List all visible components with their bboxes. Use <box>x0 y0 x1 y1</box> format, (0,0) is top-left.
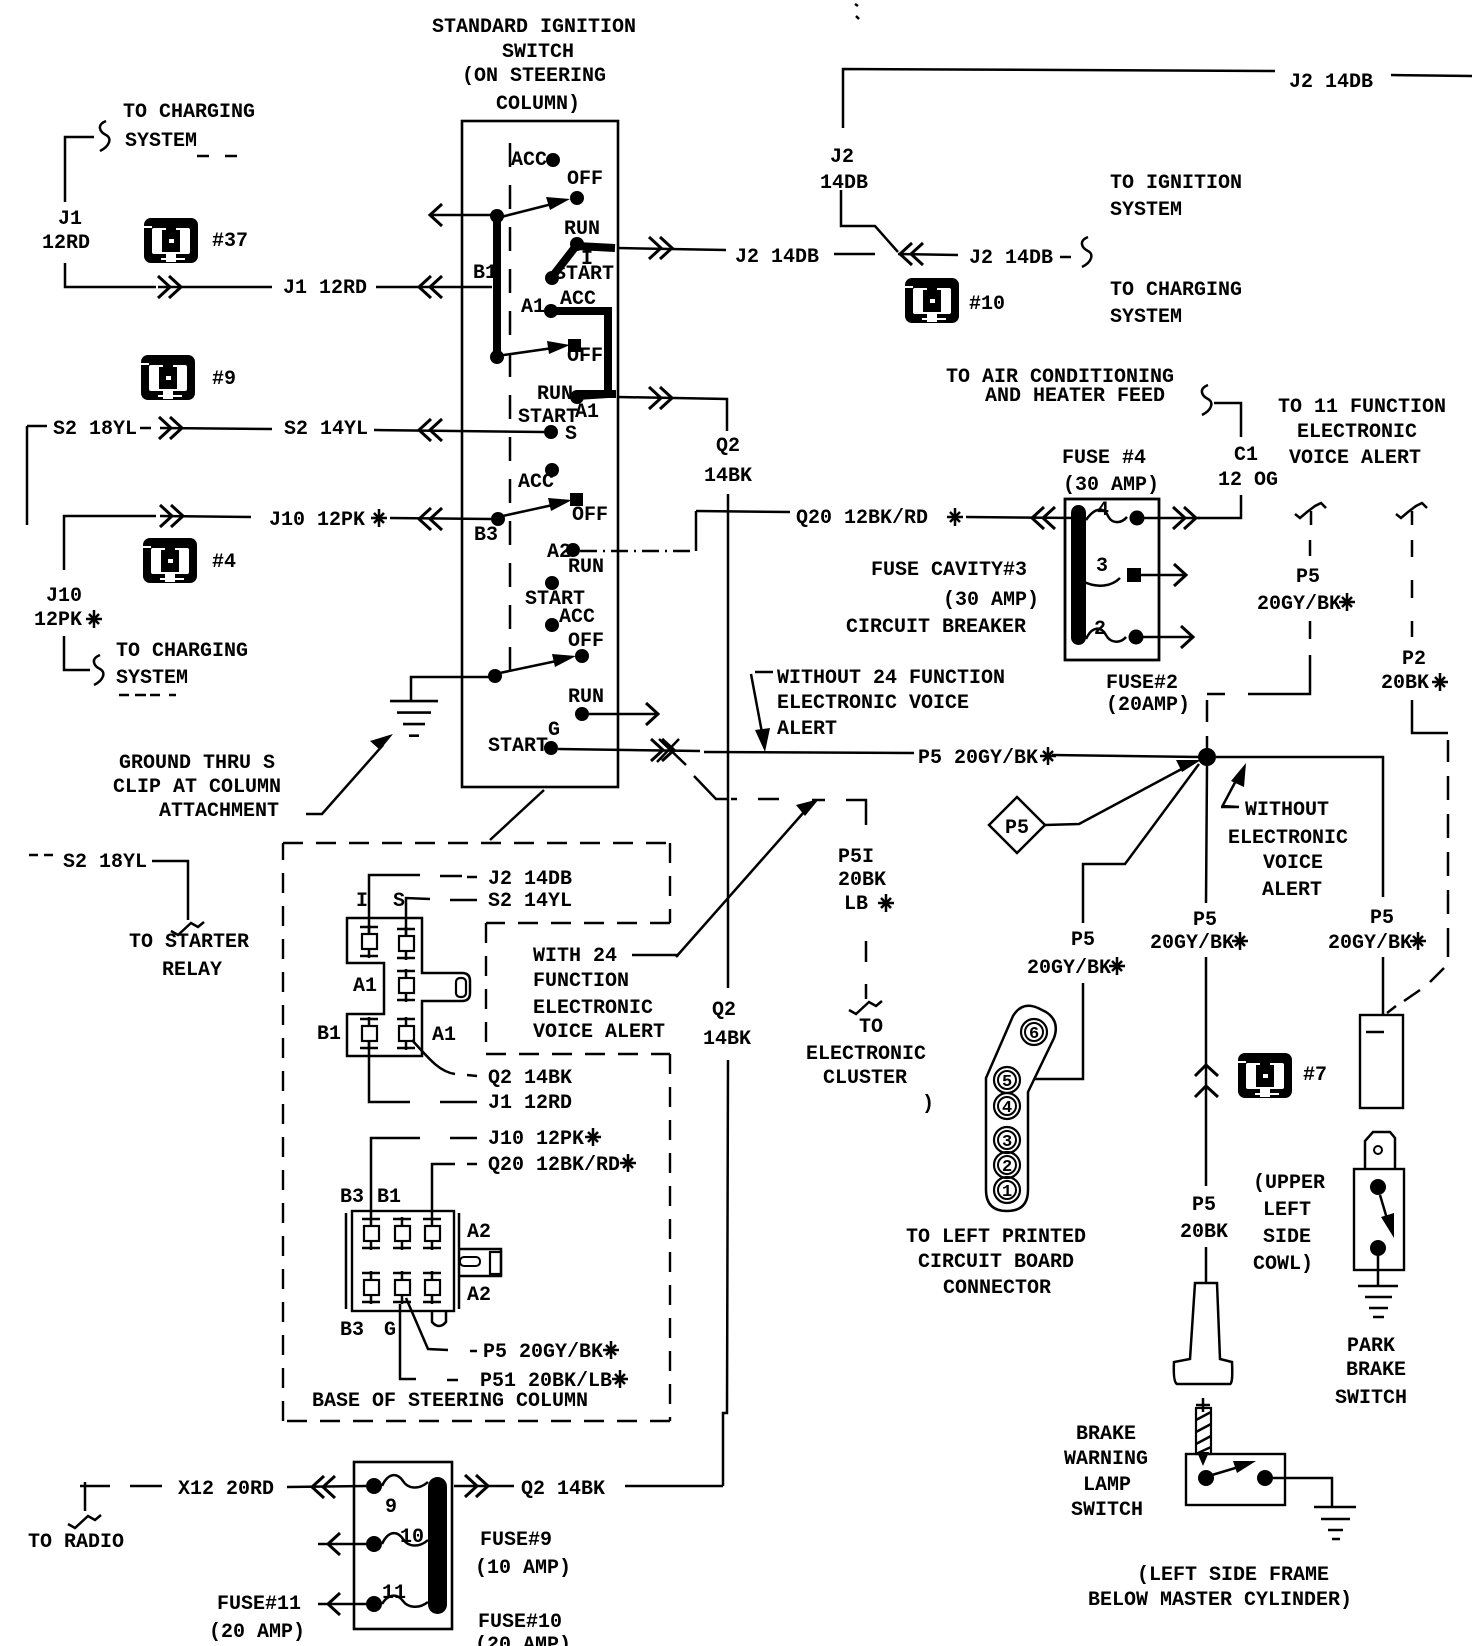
svg-text:J1 12RD: J1 12RD <box>488 1092 572 1115</box>
svg-text:Q2: Q2 <box>712 999 736 1022</box>
lower connector pins row2 <box>362 1271 441 1304</box>
wire P5 center vertical <box>1180 766 1228 1283</box>
svg-text:START: START <box>488 735 548 758</box>
lower connector pins row1 <box>362 1217 441 1250</box>
svg-text:GROUND THRU S: GROUND THRU S <box>119 752 275 775</box>
ignition switch section 2 contacts <box>474 463 608 564</box>
svg-text:COWL): COWL) <box>1253 1253 1313 1276</box>
svg-text:(10 AMP): (10 AMP) <box>475 1557 571 1580</box>
svg-text:RUN: RUN <box>564 218 600 241</box>
svg-text:P5I: P5I <box>838 846 874 869</box>
wire Q20 label to pin <box>432 1164 477 1217</box>
svg-text:S2 14YL: S2 14YL <box>284 418 368 441</box>
svg-text:A1: A1 <box>575 401 599 424</box>
splice #7 <box>1238 1053 1327 1098</box>
svg-text:CLUSTER: CLUSTER <box>823 1067 907 1090</box>
svg-text:BELOW MASTER CYLINDER): BELOW MASTER CYLINDER) <box>1088 1589 1352 1612</box>
svg-text:OFF: OFF <box>568 630 604 653</box>
svg-text:TO STARTER: TO STARTER <box>129 931 249 954</box>
svg-text:12 OG: 12 OG <box>1218 469 1278 492</box>
svg-text:FUSE#9: FUSE#9 <box>480 1529 552 1552</box>
splice #9 <box>141 355 236 400</box>
connector stub P5 (to 11-function EVA) <box>1207 503 1355 750</box>
lower column connector labels <box>488 1128 636 1177</box>
svg-text:12RD: 12RD <box>42 232 90 255</box>
svg-text:#37: #37 <box>212 230 248 253</box>
wire X12 20RD <box>28 1476 366 1554</box>
svg-text:RELAY: RELAY <box>162 959 222 982</box>
pin A1 lower <box>397 1017 456 1050</box>
svg-text:Q2 14BK: Q2 14BK <box>488 1067 572 1090</box>
svg-text:J10 12PK: J10 12PK <box>488 1128 584 1151</box>
label WITH 24 FUNCTION EVA <box>533 945 679 1044</box>
svg-text:J2 14DB: J2 14DB <box>488 868 572 891</box>
fuse block #4 <box>1065 499 1200 660</box>
svg-text:WITH 24: WITH 24 <box>533 945 617 968</box>
svg-text:BASE OF STEERING COLUMN: BASE OF STEERING COLUMN <box>312 1390 588 1413</box>
pin I <box>356 890 378 958</box>
svg-text:WITHOUT: WITHOUT <box>1245 799 1329 822</box>
svg-text:ACC: ACC <box>559 606 595 629</box>
svg-text:ELECTRONIC: ELECTRONIC <box>806 1043 926 1066</box>
svg-text:(20AMP): (20AMP) <box>1106 694 1190 717</box>
svg-text:ATTACHMENT: ATTACHMENT <box>159 800 279 823</box>
svg-text:X12 20RD: X12 20RD <box>178 1478 274 1501</box>
label WITHOUT ELECTRONIC VOICE ALERT <box>1221 763 1348 902</box>
ground thru clip symbol <box>390 701 438 736</box>
wire J1 12RD row <box>158 276 492 300</box>
pointer switch box to dashed box <box>490 790 544 840</box>
svg-text:10: 10 <box>400 1526 424 1549</box>
svg-text:VOICE ALERT: VOICE ALERT <box>533 1021 665 1044</box>
svg-text:S2 18YL: S2 18YL <box>53 418 137 441</box>
svg-text:P5: P5 <box>1005 817 1029 840</box>
thick wire RUN to START <box>552 246 576 277</box>
svg-text:20GY/BK: 20GY/BK <box>1328 932 1412 955</box>
svg-text:A2: A2 <box>467 1284 491 1307</box>
svg-text:A2: A2 <box>467 1221 491 1244</box>
svg-text:20GY/BK: 20GY/BK <box>1257 593 1341 616</box>
svg-text:S2 18YL: S2 18YL <box>63 851 147 874</box>
ground label + arrow <box>113 734 393 823</box>
svg-text:P2: P2 <box>1402 648 1426 671</box>
wire pin S to S2 14YL label <box>406 898 477 936</box>
svg-text:(30 AMP): (30 AMP) <box>1063 474 1159 497</box>
connector housing (voice alert) <box>1360 1015 1403 1108</box>
svg-text:TO: TO <box>859 1016 883 1039</box>
thick S wire A1-ACC to RUN2 <box>551 311 608 396</box>
wire J2 14DB from RUN output <box>618 237 875 269</box>
svg-text:STANDARD IGNITION: STANDARD IGNITION <box>432 16 636 39</box>
lower column connector body <box>346 1211 501 1326</box>
ground park brake <box>1358 1256 1398 1317</box>
wire C1 12 OG <box>946 366 1278 518</box>
node J2 top wire <box>820 69 1472 252</box>
splice #4 <box>143 538 236 583</box>
svg-text:J2 14DB: J2 14DB <box>1289 71 1373 94</box>
svg-text:11: 11 <box>382 1582 406 1605</box>
svg-text:14DB: 14DB <box>820 172 868 195</box>
svg-text:PARK: PARK <box>1347 1335 1395 1358</box>
wire P51 dashed to electronic cluster <box>694 776 934 1116</box>
wire S2 18YL to starter relay <box>29 851 249 982</box>
svg-text:14BK: 14BK <box>704 465 752 488</box>
svg-text:A1: A1 <box>521 296 545 319</box>
svg-text:I: I <box>356 890 368 913</box>
svg-text:B1: B1 <box>377 1186 401 1209</box>
wire J2 to ignition system <box>898 172 1242 329</box>
svg-text:FUSE#2: FUSE#2 <box>1106 672 1178 695</box>
svg-text:B3: B3 <box>340 1186 364 1209</box>
section 1 lower contacts <box>518 339 603 446</box>
wire P5 junction to right <box>1216 757 1383 897</box>
fuse #4 labels <box>846 447 1190 717</box>
svg-text:ACC: ACC <box>511 149 547 172</box>
svg-text:LAMP: LAMP <box>1083 1474 1131 1497</box>
svg-text:RUN: RUN <box>568 686 604 709</box>
arrow B1 bottom to OFF2 <box>497 341 570 356</box>
label WITHOUT 24 FUNCTION EVA <box>751 667 1005 752</box>
svg-text:TO CHARGING: TO CHARGING <box>116 640 248 663</box>
svg-text:SYSTEM: SYSTEM <box>1110 199 1182 222</box>
svg-text:VOICE: VOICE <box>1263 852 1323 875</box>
svg-text:P5 20GY/BK: P5 20GY/BK <box>918 747 1038 770</box>
svg-text:ELECTRONIC: ELECTRONIC <box>1228 827 1348 850</box>
svg-text:4: 4 <box>1002 1099 1012 1118</box>
svg-text:BRAKE: BRAKE <box>1076 1423 1136 1446</box>
wire J10 12PK row <box>34 505 491 632</box>
title: STANDARD IGNITION SWITCH (ON STEERING COLUMN) <box>432 16 636 116</box>
upper column connector body <box>347 918 470 1056</box>
pin B1 <box>317 1017 378 1050</box>
svg-text:20BK: 20BK <box>838 869 886 892</box>
svg-text:WARNING: WARNING <box>1064 1448 1148 1471</box>
svg-text:(UPPER: (UPPER <box>1253 1172 1325 1195</box>
svg-text:J2 14DB: J2 14DB <box>735 246 819 269</box>
label P5 20GY/BK* mid <box>918 747 1056 770</box>
svg-text:(ON STEERING: (ON STEERING <box>462 65 606 88</box>
svg-text:Q2 14BK: Q2 14BK <box>521 1478 605 1501</box>
svg-text:TO 11 FUNCTION: TO 11 FUNCTION <box>1278 396 1446 419</box>
svg-text:FUSE#11: FUSE#11 <box>217 1593 301 1616</box>
svg-text:(20 AMP): (20 AMP) <box>475 1634 571 1646</box>
svg-text:B3: B3 <box>340 1319 364 1342</box>
svg-text:9: 9 <box>385 1496 397 1519</box>
park brake switch <box>1354 1132 1404 1270</box>
svg-text:3: 3 <box>1002 1133 1012 1152</box>
svg-text:CIRCUIT BOARD: CIRCUIT BOARD <box>918 1251 1074 1274</box>
svg-text:SWITCH: SWITCH <box>1335 1387 1407 1410</box>
svg-text:ELECTRONIC VOICE: ELECTRONIC VOICE <box>777 692 969 715</box>
brake warning lamp plunger boot <box>1174 1283 1232 1384</box>
label TO LEFT PRINTED CIRCUIT BOARD CONNECTOR <box>906 1226 1086 1300</box>
wire pin I to J2 14DB label <box>369 875 477 933</box>
label (UPPER LEFT SIDE COWL) <box>1253 1172 1325 1276</box>
svg-text:ELECTRONIC: ELECTRONIC <box>533 997 653 1020</box>
svg-text:5: 5 <box>1002 1073 1012 1092</box>
wire fuse 10 exit <box>318 1533 366 1555</box>
svg-text:TO IGNITION: TO IGNITION <box>1110 172 1242 195</box>
wire J10 to charging system <box>64 636 248 695</box>
svg-text:SWITCH: SWITCH <box>1071 1499 1143 1522</box>
svg-text:SIDE: SIDE <box>1263 1226 1311 1249</box>
svg-text:AND HEATER FEED: AND HEATER FEED <box>985 385 1165 408</box>
label PARK BRAKE SWITCH <box>1335 1335 1407 1410</box>
svg-text:VOICE ALERT: VOICE ALERT <box>1289 447 1421 470</box>
svg-text:G: G <box>548 719 560 742</box>
label P5 20GY/BK center column <box>1150 909 1248 955</box>
B1 feed bar (thick) <box>490 209 504 364</box>
ignition switch section 1 contacts <box>473 149 614 319</box>
node P5 junction <box>1198 748 1216 766</box>
svg-text:6: 6 <box>1029 1025 1039 1044</box>
scan specks <box>855 4 859 19</box>
svg-text:RUN: RUN <box>537 383 573 406</box>
svg-text:J2: J2 <box>830 146 854 169</box>
svg-text:TO RADIO: TO RADIO <box>28 1531 124 1554</box>
svg-text:#4: #4 <box>212 551 236 574</box>
label BRAKE WARNING LAMP SWITCH <box>1064 1423 1148 1522</box>
svg-text:SYSTEM: SYSTEM <box>125 130 197 153</box>
svg-text:): ) <box>922 1093 934 1116</box>
pin S <box>393 890 415 960</box>
wire brake switch to ground <box>1273 1478 1356 1539</box>
svg-text:J10: J10 <box>46 585 82 608</box>
svg-text:COLUMN): COLUMN) <box>496 93 580 116</box>
svg-text:#7: #7 <box>1303 1064 1327 1087</box>
svg-text:P5: P5 <box>1071 929 1095 952</box>
svg-text:CIRCUIT BREAKER: CIRCUIT BREAKER <box>846 616 1026 639</box>
svg-text:G: G <box>384 1319 396 1342</box>
svg-text:S: S <box>393 890 405 913</box>
wire pin B1 to J1 12RD label <box>369 1041 477 1102</box>
svg-text:P5: P5 <box>1370 907 1394 930</box>
svg-text:OFF: OFF <box>572 504 608 527</box>
arrow WITH24 to P51 wire <box>676 799 819 957</box>
arrow G-pivot to OFF <box>495 654 576 674</box>
svg-text:#9: #9 <box>212 368 236 391</box>
svg-text:CONNECTOR: CONNECTOR <box>943 1277 1051 1300</box>
wire Q2 14BK vertical <box>618 387 752 1486</box>
wire pivot to ground <box>411 677 495 701</box>
svg-text:P5 20GY/BK: P5 20GY/BK <box>483 1341 603 1364</box>
wire S2 row <box>27 417 544 525</box>
svg-text:20GY/BK: 20GY/BK <box>1027 957 1111 980</box>
svg-text:A1: A1 <box>353 975 377 998</box>
connector stub P2 (to 11-function EVA) <box>1381 503 1448 1013</box>
svg-text:LB: LB <box>844 893 868 916</box>
wire B1 exit top-left with arrow <box>430 204 497 226</box>
splice #37 <box>144 218 248 263</box>
svg-text:BRAKE: BRAKE <box>1346 1359 1406 1382</box>
ignition switch section 3 contacts <box>488 556 604 758</box>
wire pin G2 to P51 label <box>400 1304 458 1380</box>
svg-text:ALERT: ALERT <box>777 718 837 741</box>
svg-text:Q20 12BK/RD: Q20 12BK/RD <box>488 1154 620 1177</box>
wire A2 exit <box>580 550 696 552</box>
svg-text:20BK: 20BK <box>1381 672 1429 695</box>
wire pin A1 lower to Q2 14BK label <box>412 1040 477 1076</box>
svg-text:J2 14DB: J2 14DB <box>969 247 1053 270</box>
X crossing on G wire <box>657 739 686 765</box>
svg-text:TO LEFT PRINTED: TO LEFT PRINTED <box>906 1226 1086 1249</box>
svg-text:S2 14YL: S2 14YL <box>488 890 572 913</box>
wire G START exit (P5 20GY/BK) <box>558 739 1199 761</box>
wire J10 label to pin B1 row <box>371 1138 477 1217</box>
label TO 11 FUNCTION ELECTRONIC VOICE ALERT <box>1278 396 1446 470</box>
fuse block labels <box>209 1529 571 1646</box>
svg-text:J10 12PK: J10 12PK <box>269 509 365 532</box>
svg-text:RUN: RUN <box>568 556 604 579</box>
svg-text:TO CHARGING: TO CHARGING <box>1110 279 1242 302</box>
svg-text:ALERT: ALERT <box>1262 879 1322 902</box>
svg-text:B1: B1 <box>317 1023 341 1046</box>
svg-text:20GY/BK: 20GY/BK <box>1150 932 1234 955</box>
svg-text:1: 1 <box>1002 1183 1012 1202</box>
ignition switch box <box>462 121 618 787</box>
svg-text:Q2: Q2 <box>716 435 740 458</box>
pcb connector (left printed circuit board) <box>986 1006 1056 1211</box>
svg-text:SWITCH: SWITCH <box>502 41 574 64</box>
svg-text:(30 AMP): (30 AMP) <box>943 589 1039 612</box>
svg-text:(20 AMP): (20 AMP) <box>209 1621 305 1644</box>
svg-text:ELECTRONIC: ELECTRONIC <box>1297 421 1417 444</box>
svg-text:FUNCTION: FUNCTION <box>533 970 629 993</box>
screw symbol <box>1196 1398 1211 1466</box>
dashed box BASE OF STEERING COLUMN <box>283 843 670 1421</box>
brake warning lamp switch body <box>1186 1454 1285 1505</box>
P5 diamond tag <box>989 760 1201 853</box>
upper column connector labels <box>488 868 572 1115</box>
wire Q20 12BK/RD <box>696 507 1078 530</box>
wire RUN3 exit arrow <box>589 703 658 725</box>
svg-text:14BK: 14BK <box>703 1028 751 1051</box>
arrow B1 to OFF <box>497 197 570 218</box>
svg-text:SYSTEM: SYSTEM <box>1110 306 1182 329</box>
splice #10 <box>905 278 1005 323</box>
svg-text:CLIP AT COLUMN: CLIP AT COLUMN <box>113 776 281 799</box>
svg-text:12PK: 12PK <box>34 609 82 632</box>
svg-text:OFF: OFF <box>567 168 603 191</box>
wire fuse 11 exit <box>318 1593 366 1615</box>
svg-text:C1: C1 <box>1234 444 1258 467</box>
svg-text:FUSE CAVITY#3: FUSE CAVITY#3 <box>871 559 1027 582</box>
svg-text:3: 3 <box>1096 555 1108 578</box>
svg-text:20BK: 20BK <box>1180 1221 1228 1244</box>
svg-text:LEFT: LEFT <box>1263 1199 1311 1222</box>
svg-text:#10: #10 <box>969 293 1005 316</box>
svg-text:FUSE#10: FUSE#10 <box>478 1611 562 1634</box>
wire J1 12RD top to charging <box>42 101 255 287</box>
svg-text:TO CHARGING: TO CHARGING <box>123 101 255 124</box>
svg-text:P5: P5 <box>1193 909 1217 932</box>
label P5 20GY/BK right column <box>1328 907 1426 1015</box>
svg-text:(LEFT SIDE FRAME: (LEFT SIDE FRAME <box>1137 1564 1329 1587</box>
svg-text:WITHOUT 24 FUNCTION: WITHOUT 24 FUNCTION <box>777 667 1005 690</box>
svg-text:S: S <box>565 423 577 446</box>
thick wire RUN to box edge (J2 output) <box>577 246 615 248</box>
arrow B3 to OFF <box>498 498 572 517</box>
svg-text:B3: B3 <box>474 524 498 547</box>
svg-text:FUSE #4: FUSE #4 <box>1062 447 1146 470</box>
svg-text:2: 2 <box>1002 1158 1012 1177</box>
lower connector pin labels <box>340 1186 491 1342</box>
wire Q2 14BK to fuse 9 <box>454 1475 723 1501</box>
svg-text:A1: A1 <box>432 1024 456 1047</box>
svg-text:P5: P5 <box>1192 1194 1216 1217</box>
pin A1 mid <box>353 969 415 1002</box>
svg-text:J1 12RD: J1 12RD <box>283 277 367 300</box>
svg-text:Q20 12BK/RD: Q20 12BK/RD <box>796 507 928 530</box>
wire pin G to P5 label <box>406 1298 477 1351</box>
wire P5 from pcb connector to junction <box>1027 764 1199 1079</box>
svg-text:P5: P5 <box>1296 566 1320 589</box>
fuse block 9/10/11 <box>354 1462 452 1629</box>
labels P5 / P51 in dashed box <box>480 1341 628 1393</box>
svg-text:SYSTEM: SYSTEM <box>116 667 188 690</box>
label (LEFT SIDE FRAME BELOW MASTER CYLINDER) <box>1088 1564 1352 1612</box>
svg-text:J1: J1 <box>58 208 82 231</box>
